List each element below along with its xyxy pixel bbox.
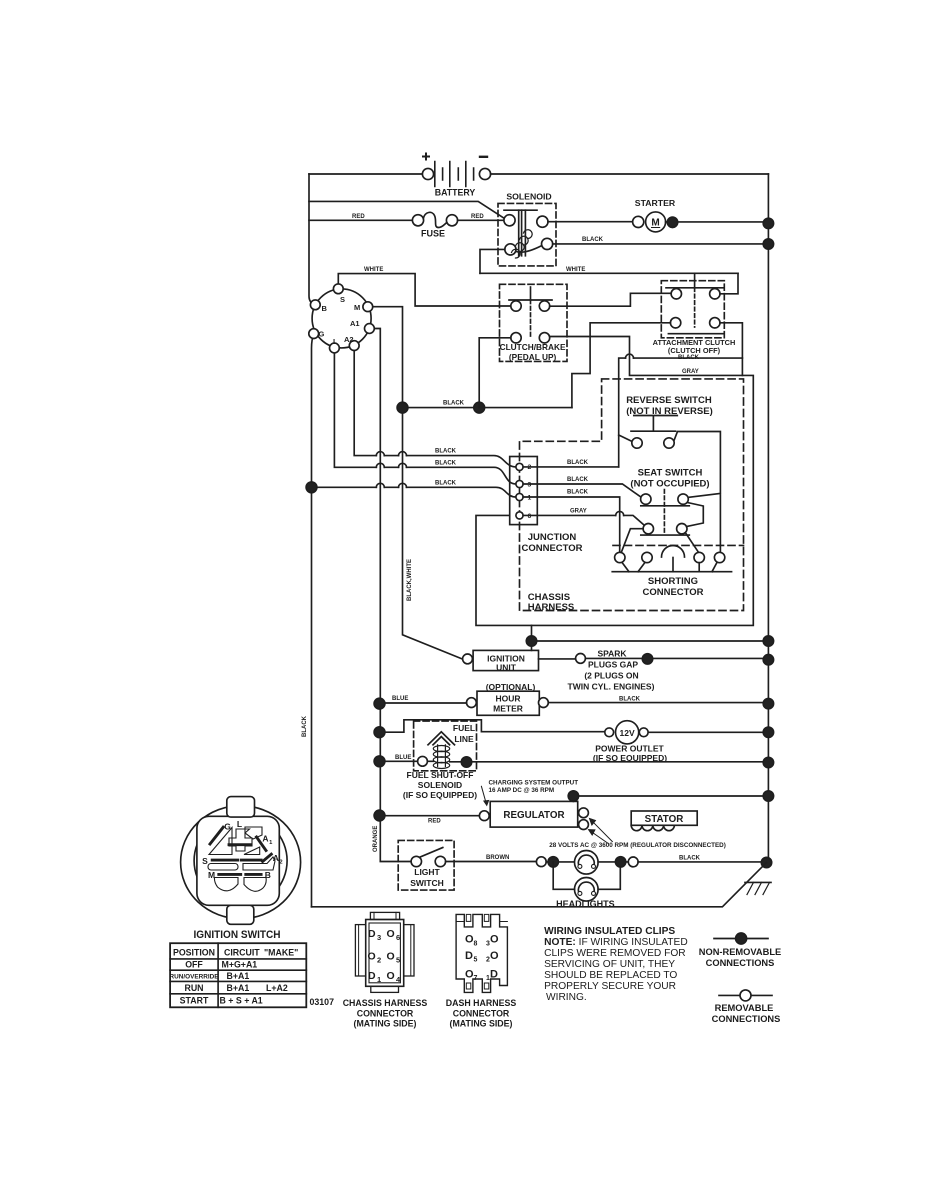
wire clutch/brake top-right to attachment clutch xyxy=(550,293,672,306)
junction dot A1 hour meter xyxy=(374,698,385,709)
wire spark to rail xyxy=(585,657,768,659)
label L (connector) xyxy=(237,819,242,829)
svg-text:BLACK: BLACK xyxy=(435,449,457,455)
label BLUE (hour meter) xyxy=(392,696,408,702)
svg-text:BLACK: BLACK xyxy=(678,355,700,361)
svg-text:BLUE: BLUE xyxy=(395,755,411,761)
battery BT1 xyxy=(422,154,490,198)
svg-text:O: O xyxy=(490,934,499,946)
svg-text:5: 5 xyxy=(396,956,400,965)
table row RUN/OVERRIDE xyxy=(169,971,249,981)
ignition switch table xyxy=(170,943,306,1007)
svg-text:BLACK: BLACK xyxy=(679,855,701,861)
wire headlights black to rail corner xyxy=(638,861,766,863)
fuse F1 xyxy=(412,212,457,238)
label GRAY (upper) xyxy=(682,369,699,375)
junction dot clutch wire on black row xyxy=(474,402,485,413)
dash pin D5 xyxy=(465,950,478,964)
wire fuse row left xyxy=(309,219,412,221)
ignition switch SW1 (schematic) xyxy=(312,289,371,348)
connector slot: bottom-left fan xyxy=(214,878,238,891)
svg-text:6: 6 xyxy=(528,513,532,520)
label A2 (connector) xyxy=(273,853,283,866)
seat switch S5 xyxy=(630,467,709,535)
dash pin 3O xyxy=(486,934,499,948)
wire black row to reverse switch (y358) xyxy=(619,354,743,467)
wire G rail down left xyxy=(312,334,314,907)
svg-text:BLACK: BLACK xyxy=(435,480,457,486)
svg-text:BLACK,WHITE: BLACK,WHITE xyxy=(407,559,413,601)
pin label A1 xyxy=(350,319,360,328)
wire regulator top to rail xyxy=(573,796,768,801)
table row RUN xyxy=(184,983,287,993)
wire A2 to junction pin2 : row A xyxy=(354,346,516,467)
svg-text:CIRCUIT: CIRCUIT xyxy=(224,947,260,957)
svg-text:(MATING SIDE): (MATING SIDE) xyxy=(354,1019,417,1029)
label GRAY (pin6 wire) xyxy=(570,508,587,514)
svg-text:S: S xyxy=(202,856,208,866)
wire headlight left link xyxy=(546,861,574,863)
headlight lamp E2 xyxy=(575,878,599,902)
junction dot spark xyxy=(642,654,652,664)
svg-text:UNIT: UNIT xyxy=(496,662,517,672)
svg-text:16 AMP DC @ 36 RPM: 16 AMP DC @ 36 RPM xyxy=(489,787,555,794)
svg-text:BLACK: BLACK xyxy=(302,715,308,737)
pin number 3 xyxy=(528,482,532,489)
wire solenoid feed xyxy=(309,201,505,218)
label BLACK (row B) xyxy=(435,460,457,466)
dash pin O8 xyxy=(465,934,478,948)
svg-text:LIGHT: LIGHT xyxy=(414,867,440,877)
svg-text:WHITE: WHITE xyxy=(566,267,585,273)
svg-text:SPARK: SPARK xyxy=(597,648,627,658)
chassis pin O6 xyxy=(387,928,401,942)
wire bottom border xyxy=(312,863,767,907)
svg-text:START: START xyxy=(180,996,209,1006)
table header CIRCUIT MAKE xyxy=(224,947,298,957)
svg-text:D: D xyxy=(465,950,473,962)
svg-text:CONNECTIONS: CONNECTIONS xyxy=(712,1014,781,1024)
svg-text:BLACK: BLACK xyxy=(443,400,465,406)
junction dot A1 red row xyxy=(374,810,385,821)
label BLACK (solenoid row) xyxy=(582,237,604,243)
svg-text:D: D xyxy=(490,968,498,980)
label RED left xyxy=(352,214,365,220)
svg-text:2: 2 xyxy=(279,859,282,865)
svg-text:L: L xyxy=(333,337,338,346)
pin number 6 xyxy=(528,513,532,520)
svg-text:(NOT OCCUPIED): (NOT OCCUPIED) xyxy=(630,479,709,490)
terminal bar S xyxy=(212,859,238,862)
svg-text:D: D xyxy=(368,970,376,982)
terminal bar S2 xyxy=(241,859,261,862)
junction dot rail solenoid black xyxy=(763,239,773,249)
note WIRING INSULATED CLIPS xyxy=(544,926,688,1003)
junction dot kill bus tap xyxy=(526,636,536,646)
svg-text:3: 3 xyxy=(528,482,532,489)
wire pin3 to seat switch xyxy=(523,484,641,498)
connector slot: bottom-right fan xyxy=(244,878,266,892)
svg-text:D: D xyxy=(368,928,376,940)
solenoid K1 xyxy=(498,192,556,266)
label BLACK (pin3 wire) xyxy=(567,477,589,483)
terminal bar G xyxy=(210,827,223,844)
fuel shut-off solenoid L1 coil xyxy=(403,745,477,800)
wire fuel solenoid to rail xyxy=(427,760,768,763)
svg-text:NON-REMOVABLE: NON-REMOVABLE xyxy=(699,947,781,957)
wire M down (black/white) xyxy=(368,307,462,659)
chassis harness connector (mating side) xyxy=(355,912,414,992)
pin label L xyxy=(333,337,338,346)
svg-text:O: O xyxy=(387,950,395,962)
svg-text:RED: RED xyxy=(471,214,484,220)
svg-text:CONNECTOR: CONNECTOR xyxy=(642,587,703,598)
connector slot: top-left triangle xyxy=(209,828,232,855)
wire seat bottom-right to shorting c3 xyxy=(686,533,700,554)
wire pin1 to shorting connector xyxy=(523,497,620,553)
svg-text:B: B xyxy=(265,870,271,880)
regulator U3 xyxy=(479,801,588,829)
connector slot: right bar slot xyxy=(243,857,275,870)
svg-text:L: L xyxy=(237,819,242,829)
svg-text:SEAT SWITCH: SEAT SWITCH xyxy=(638,467,703,478)
svg-text:12V: 12V xyxy=(620,728,635,738)
annotation arrows stator output xyxy=(549,818,726,849)
svg-text:SHOULD BE REPLACED TO: SHOULD BE REPLACED TO xyxy=(544,970,677,981)
wire red to regulator xyxy=(380,815,480,817)
junction dot rail hour meter xyxy=(763,698,773,708)
wire battery+ drop on left xyxy=(309,174,315,305)
svg-text:HARNESS: HARNESS xyxy=(528,602,574,613)
junction dot row C tap xyxy=(306,482,317,493)
starter motor M xyxy=(548,198,768,232)
svg-text:SHORTING: SHORTING xyxy=(648,576,698,587)
junction dot rail regulator xyxy=(763,791,773,801)
label SPARK PLUGS GAP xyxy=(568,648,655,691)
wire hour meter left blue xyxy=(380,702,467,704)
svg-text:2: 2 xyxy=(377,956,381,965)
chassis harness dashed boundary xyxy=(520,379,744,611)
svg-text:M+G+A1: M+G+A1 xyxy=(222,960,258,970)
svg-text:1: 1 xyxy=(528,495,532,502)
svg-text:7: 7 xyxy=(474,975,478,982)
ignition unit U1 xyxy=(463,650,539,672)
wire reverse right to seat/shorting xyxy=(674,432,720,554)
wire white row under solenoid xyxy=(480,272,738,274)
wire white row into attachment top-right xyxy=(720,273,738,294)
label G (connector) xyxy=(224,822,231,832)
svg-text:BLACK: BLACK xyxy=(567,490,589,496)
reverse switch S4 xyxy=(626,395,713,448)
label WHITE (S wire) xyxy=(364,267,383,273)
attachment clutch S3 xyxy=(653,273,736,355)
label BLACK (hour meter) xyxy=(619,696,641,702)
svg-text:OFF: OFF xyxy=(185,960,203,970)
light switch S6 xyxy=(398,840,454,890)
svg-text:WHITE: WHITE xyxy=(364,267,383,273)
svg-text:REGULATOR: REGULATOR xyxy=(503,810,564,821)
svg-text:SERVICING OF UNIT, THEY: SERVICING OF UNIT, THEY xyxy=(544,959,675,970)
junction dot rail battery/starter xyxy=(763,218,773,228)
spark plug gap terminal xyxy=(576,654,586,664)
wire seat bottom-left to shorting c1 xyxy=(621,529,643,554)
label BLACK (mid row) xyxy=(443,400,465,406)
svg-text:SOLENOID: SOLENOID xyxy=(506,192,551,202)
terminal bar A2 xyxy=(263,854,272,861)
dash harness connector (mating side) xyxy=(456,914,507,992)
svg-text:(CLUTCH OFF): (CLUTCH OFF) xyxy=(668,346,721,355)
label S (connector) xyxy=(202,856,208,866)
svg-text:CONNECTOR: CONNECTOR xyxy=(357,1008,414,1018)
svg-text:BLACK: BLACK xyxy=(567,460,589,466)
svg-text:A: A xyxy=(262,834,268,844)
legend removable connection xyxy=(712,990,781,1024)
label CHARGING SYSTEM OUTPUT xyxy=(481,780,578,806)
svg-text:SOLENOID: SOLENOID xyxy=(418,780,462,790)
wire fuel blue left xyxy=(380,760,418,762)
pin label A2 xyxy=(344,335,354,344)
wire battery row right to right rail xyxy=(491,173,769,175)
svg-text:M: M xyxy=(208,870,215,880)
svg-text:A2: A2 xyxy=(344,335,354,344)
svg-text:M: M xyxy=(354,303,360,312)
headlight terminal right xyxy=(628,857,638,867)
label BLACK (row A) xyxy=(435,449,457,455)
svg-text:FUEL SHUT-OFF: FUEL SHUT-OFF xyxy=(407,770,474,780)
junction dot A1 fuel row xyxy=(374,756,385,767)
label B (connector) xyxy=(265,870,271,880)
svg-text:CHARGING SYSTEM OUTPUT: CHARGING SYSTEM OUTPUT xyxy=(489,780,579,787)
svg-text:POWER OUTLET: POWER OUTLET xyxy=(595,744,664,754)
svg-text:B: B xyxy=(322,304,328,313)
label DASH HARNESS CONNECTOR xyxy=(446,998,517,1029)
junction dot A1 12v row xyxy=(374,727,385,738)
svg-text:JUNCTION: JUNCTION xyxy=(528,532,577,543)
svg-text:(MATING SIDE): (MATING SIDE) xyxy=(450,1019,513,1029)
dash pin 1D xyxy=(486,968,498,982)
table row OFF xyxy=(185,960,257,970)
svg-text:NOTE: IF WIRING INSULATED: NOTE: IF WIRING INSULATED xyxy=(544,937,688,948)
svg-text:BATTERY: BATTERY xyxy=(435,188,476,198)
svg-text:POSITION: POSITION xyxy=(173,947,215,957)
wire attachment bottom-left to black row xyxy=(572,323,671,408)
label WHITE (white row) xyxy=(566,267,585,273)
ignition switch connector (rear view) xyxy=(181,797,301,925)
svg-text:L+A2: L+A2 xyxy=(266,983,288,993)
svg-text:RUN: RUN xyxy=(184,983,203,993)
wire ignition unit to spark plugs xyxy=(539,658,576,660)
svg-text:IGNITION SWITCH: IGNITION SWITCH xyxy=(194,929,281,941)
svg-text:CLIPS WERE REMOVED FOR: CLIPS WERE REMOVED FOR xyxy=(544,948,686,959)
svg-text:REVERSE SWITCH: REVERSE SWITCH xyxy=(626,395,712,406)
wire pin2 to reverse switch xyxy=(523,435,632,467)
chassis pin D3 xyxy=(368,928,381,942)
junction dot headlight right xyxy=(615,857,625,867)
shorting connector J2 xyxy=(612,546,731,598)
pin label B xyxy=(322,304,328,313)
junction dot rail fuel xyxy=(763,757,773,767)
junction dot starter output xyxy=(667,217,677,227)
ground chassis symbol xyxy=(745,882,771,894)
svg-text:BLUE: BLUE xyxy=(392,696,408,702)
svg-text:BROWN: BROWN xyxy=(486,855,509,861)
stator G1 xyxy=(631,811,697,831)
junction dot headlight left xyxy=(548,857,558,867)
label CHASSIS HARNESS xyxy=(528,592,574,613)
wire clutch/brake bottom-right gray loop xyxy=(476,337,753,626)
headlight lamp E1 xyxy=(575,851,599,875)
terminal bar A1 xyxy=(257,837,267,851)
pin number 1 xyxy=(528,495,532,502)
wire L to junction pin3 : row B xyxy=(334,348,516,484)
wire solenoid black row to rail xyxy=(553,243,769,245)
wire attachment bottom-right down xyxy=(720,323,742,376)
label BROWN xyxy=(486,855,509,861)
svg-text:CONNECTOR: CONNECTOR xyxy=(453,1008,510,1018)
label A1 (connector) xyxy=(262,834,273,847)
table row START xyxy=(180,996,263,1006)
svg-text:WIRING.: WIRING. xyxy=(546,992,587,1003)
chassis harness inner dashed divider xyxy=(613,544,744,546)
connector slot: right triangle xyxy=(244,847,260,855)
label ORANGE vertical xyxy=(373,826,379,852)
wire solenoid lower-left to white row xyxy=(480,249,505,273)
dash pin 2O xyxy=(486,950,499,964)
svg-text:GRAY: GRAY xyxy=(682,369,699,375)
junction dot rail kill xyxy=(763,636,773,646)
svg-text:BLACK: BLACK xyxy=(435,460,457,466)
connector slot: top-right wedge xyxy=(245,827,262,839)
label 03107 xyxy=(310,997,335,1007)
svg-text:WIRING INSULATED CLIPS: WIRING INSULATED CLIPS xyxy=(544,926,675,937)
chassis pin O2 xyxy=(368,950,382,964)
svg-text:G: G xyxy=(319,330,325,339)
svg-text:BLACK: BLACK xyxy=(619,696,641,702)
wire light switch to headlights brown xyxy=(446,861,537,863)
label FUEL LINE xyxy=(453,723,475,744)
svg-text:6: 6 xyxy=(396,933,400,942)
wire black row mid (y407.6) xyxy=(403,407,572,409)
label BLACK (y358) xyxy=(678,355,700,361)
svg-text:3: 3 xyxy=(377,933,381,942)
wire fuse to solenoid xyxy=(458,219,504,221)
dash pin O7 xyxy=(465,968,478,982)
pin label G xyxy=(319,330,325,339)
wire kill bus to right rail xyxy=(532,640,769,642)
svg-text:STARTER: STARTER xyxy=(635,198,676,208)
wire battery row left xyxy=(309,173,423,175)
svg-text:"MAKE": "MAKE" xyxy=(264,947,298,957)
wire 12v outlet row xyxy=(380,720,769,733)
label RED (regulator) xyxy=(428,819,441,825)
hour meter U2 xyxy=(467,682,549,716)
svg-text:CLUTCH/BRAKE: CLUTCH/BRAKE xyxy=(500,342,566,352)
terminal bar B xyxy=(246,873,261,876)
connector slot: left bar slot xyxy=(208,864,238,871)
wire G-tap to junction pin1 : row C xyxy=(312,483,516,497)
svg-text:GRAY: GRAY xyxy=(570,508,587,514)
junction dot rail spark xyxy=(763,655,773,665)
svg-text:O: O xyxy=(387,970,395,982)
wire S white to clutch/brake xyxy=(338,274,511,306)
svg-text:B+A1: B+A1 xyxy=(227,971,250,981)
svg-text:STATOR: STATOR xyxy=(645,814,684,825)
12V power outlet X1 xyxy=(593,721,667,763)
svg-text:RUN/OVERRIDE: RUN/OVERRIDE xyxy=(169,974,219,981)
label BLACK (pin2 wire) xyxy=(567,460,589,466)
svg-text:A: A xyxy=(273,853,279,863)
pin label M xyxy=(354,303,360,312)
headlight terminal left xyxy=(536,857,546,867)
label CHASSIS HARNESS CONNECTOR xyxy=(343,998,428,1029)
wire lamp1 right to terminal xyxy=(598,861,628,863)
svg-text:(IF SO EQUIPPED): (IF SO EQUIPPED) xyxy=(403,790,477,800)
wire lamp2 right rise xyxy=(598,862,620,889)
svg-text:G: G xyxy=(224,822,231,832)
wire clutch/brake bottom-left to black row xyxy=(479,338,511,408)
label JUNCTION CONNECTOR xyxy=(521,532,582,554)
svg-text:O: O xyxy=(387,928,395,940)
svg-text:REMOVABLE: REMOVABLE xyxy=(715,1003,774,1013)
svg-text:HOUR: HOUR xyxy=(495,694,520,704)
svg-text:RED: RED xyxy=(352,214,365,220)
svg-text:5: 5 xyxy=(474,957,478,964)
label BLACK (headlights) xyxy=(679,855,701,861)
junction dot rail 12v xyxy=(763,727,773,737)
connector slot: top-center cross xyxy=(229,829,252,851)
fuel line dashed box xyxy=(414,721,477,771)
svg-text:S: S xyxy=(340,295,345,304)
svg-text:ORANGE: ORANGE xyxy=(373,826,379,852)
wire pin6 gray to seat switch xyxy=(523,511,644,525)
terminal bar center xyxy=(229,843,251,846)
chassis pin D1 xyxy=(368,970,381,984)
pin label S xyxy=(340,295,345,304)
fuel line arrow xyxy=(428,732,455,745)
label BLACK WHITE vertical xyxy=(407,559,413,601)
svg-text:BLACK: BLACK xyxy=(567,477,589,483)
wire right rail xyxy=(767,174,769,862)
wire A1 down xyxy=(369,329,411,862)
svg-text:(PEDAL UP): (PEDAL UP) xyxy=(509,352,557,362)
svg-text:(2 PLUGS ON: (2 PLUGS ON xyxy=(584,671,638,681)
chassis pin O5 xyxy=(387,950,401,964)
table header POSITION xyxy=(173,947,215,957)
svg-text:28 VOLTS AC @ 3600 RPM (REGULA: 28 VOLTS AC @ 3600 RPM (REGULATOR DISCON… xyxy=(549,842,726,849)
svg-text:LINE: LINE xyxy=(454,734,474,744)
svg-text:(OPTIONAL): (OPTIONAL) xyxy=(486,682,536,692)
svg-text:PROPERLY SECURE YOUR: PROPERLY SECURE YOUR xyxy=(544,981,676,992)
svg-text:DASH HARNESS: DASH HARNESS xyxy=(446,998,517,1008)
wire lamp2 left drop xyxy=(553,862,574,889)
svg-text:BLACK: BLACK xyxy=(582,237,604,243)
junction dot fuel row xyxy=(461,757,471,767)
ignition switch pins xyxy=(309,284,374,353)
svg-text:8: 8 xyxy=(474,940,478,947)
junction dot regulator top xyxy=(568,791,578,801)
svg-text:O: O xyxy=(490,950,499,962)
svg-text:B + S + A1: B + S + A1 xyxy=(220,996,263,1006)
svg-text:SWITCH: SWITCH xyxy=(410,878,444,888)
label BLACK vertical (left rail) xyxy=(302,715,308,737)
junction dot M-vertical on black row xyxy=(397,402,408,413)
label BLACK (row C) xyxy=(435,480,457,486)
svg-text:O: O xyxy=(368,950,376,962)
svg-text:A1: A1 xyxy=(350,319,360,328)
svg-text:FUEL: FUEL xyxy=(453,723,475,733)
svg-text:03107: 03107 xyxy=(310,997,335,1007)
pin number 2 xyxy=(528,464,532,471)
